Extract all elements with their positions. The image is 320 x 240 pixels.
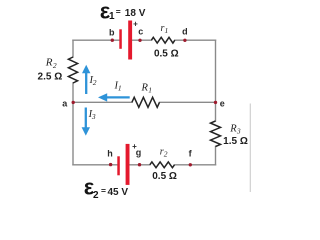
svg-text:=: = [116,7,121,17]
svg-text:2: 2 [93,190,99,201]
svg-text:R: R [45,56,53,68]
svg-text:3: 3 [236,127,241,136]
svg-text:1.5 Ω: 1.5 Ω [223,136,248,147]
svg-text:1: 1 [109,11,115,22]
svg-text:1: 1 [148,85,152,94]
svg-text:e: e [220,99,225,109]
svg-text:b: b [109,28,115,38]
svg-text:c: c [138,26,143,36]
svg-text:2: 2 [93,78,97,87]
svg-text:1: 1 [165,26,169,35]
svg-text:3: 3 [91,112,96,121]
svg-text:2: 2 [53,61,57,70]
svg-text:R: R [141,82,149,93]
svg-text:0.5 Ω: 0.5 Ω [154,49,179,60]
svg-text:g: g [136,147,142,157]
svg-text:d: d [182,27,188,37]
svg-text:2: 2 [164,149,168,158]
svg-text:1: 1 [118,84,122,93]
svg-text:0.5 Ω: 0.5 Ω [152,171,177,182]
svg-text:45 V: 45 V [108,187,129,198]
svg-text:18 V: 18 V [125,8,146,19]
svg-text:h: h [107,149,113,159]
svg-text:=: = [101,185,106,195]
svg-text:2.5 Ω: 2.5 Ω [38,71,63,82]
